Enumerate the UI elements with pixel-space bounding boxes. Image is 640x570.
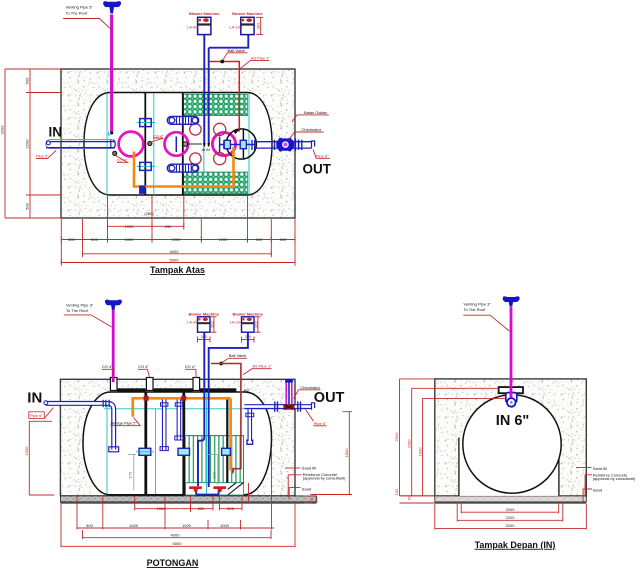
slab [435, 496, 587, 502]
vent pipe [112, 310, 115, 383]
vent pipe [510, 307, 513, 398]
vent cap [103, 1, 121, 13]
media block [185, 436, 244, 483]
chlorinator body [277, 138, 299, 152]
svg-text:1000: 1000 [172, 237, 182, 242]
media block bottom [184, 172, 248, 194]
svg-text:IN 6": IN 6" [496, 413, 529, 429]
concrete pad [61, 69, 295, 218]
svg-text:Tampak Atas: Tampak Atas [150, 265, 205, 275]
baffle fitting divider1 bottom [137, 162, 156, 170]
AS air pipe (red) [210, 62, 240, 132]
svg-text:1000: 1000 [182, 523, 192, 528]
svg-text:Sludge Pipe 2": Sludge Pipe 2" [111, 421, 138, 426]
junction dot chamber2 [183, 142, 188, 147]
cyan section line 3 [206, 392, 208, 495]
svg-text:2500: 2500 [394, 432, 399, 442]
172 dim [217, 455, 219, 485]
svg-text:4000: 4000 [170, 249, 180, 254]
svg-text:AS: AS [244, 388, 250, 393]
left dims [400, 379, 506, 503]
transfer assembly divider2 top [167, 116, 198, 124]
tank body [83, 392, 272, 495]
svg-text:630: 630 [198, 506, 205, 511]
diffuser circles (red) [190, 123, 226, 164]
svg-text:Pipe 6": Pipe 6" [36, 154, 49, 159]
row3 [83, 253, 272, 255]
row2 [61, 239, 295, 241]
svg-text:OUT: OUT [314, 390, 345, 406]
left dims [29, 69, 31, 218]
baffle fitting divider1 top [137, 119, 156, 127]
section bottom dims [61, 448, 295, 548]
extension lines below tank [107, 196, 109, 241]
svg-text:Ball Valve: Ball Valve [228, 48, 246, 53]
svg-text:500: 500 [91, 237, 98, 242]
svg-text:2000: 2000 [506, 507, 516, 512]
svg-text:Blower Machine: Blower Machine [188, 311, 219, 316]
svg-text:LA-80: LA-80 [187, 320, 198, 325]
svg-text:Sand: Sand [302, 486, 311, 491]
svg-text:OUT: OUT [303, 162, 332, 177]
ball valve (section) [219, 362, 223, 366]
svg-text:630: 630 [165, 224, 172, 229]
blower machine 2 (section) [230, 311, 264, 342]
hanging pipes chamber2 [160, 400, 183, 451]
concrete [435, 379, 587, 496]
collar [499, 387, 523, 393]
slab [60, 496, 316, 502]
svg-text:To The Roof: To The Roof [66, 308, 89, 313]
divider wall 2 [182, 93, 184, 196]
svg-text:2200: 2200 [25, 139, 30, 149]
svg-text:(approval by consultant): (approval by consultant) [303, 476, 346, 481]
clarifier circle [226, 129, 256, 159]
svg-text:CO 4": CO 4" [138, 364, 149, 369]
water level [104, 408, 269, 410]
svg-text:3200: 3200 [506, 523, 516, 528]
svg-text:Chlorinator: Chlorinator [302, 127, 322, 132]
sludge pipe wall fitting [140, 186, 145, 193]
row1 [108, 225, 184, 227]
svg-text:LA-100: LA-100 [230, 320, 244, 325]
svg-text:4000: 4000 [171, 533, 181, 538]
1800 right dim [310, 412, 352, 495]
media block top [184, 94, 248, 115]
1900 left dim [29, 421, 54, 495]
blower pipe B elbow [209, 35, 249, 48]
blower machine 1 (section) [187, 311, 220, 342]
svg-text:1000: 1000 [157, 506, 167, 511]
cyan section lines [107, 93, 249, 195]
svg-text:2300: 2300 [406, 439, 411, 449]
svg-text:500: 500 [68, 237, 75, 242]
sludge pipe (orange) [134, 147, 234, 187]
svg-text:175: 175 [128, 471, 133, 478]
outlet drop pipe [246, 407, 254, 445]
svg-text:500: 500 [256, 237, 263, 242]
svg-text:AI AI: AI AI [202, 147, 210, 152]
svg-text:(approval by consultant): (approval by consultant) [593, 476, 636, 481]
air pipes (section) [203, 332, 205, 437]
svg-text:172: 172 [211, 471, 216, 478]
svg-text:Sand: Sand [593, 488, 602, 493]
CO collars [110, 378, 117, 391]
svg-text:LA-100: LA-100 [229, 24, 243, 29]
svg-text:CO 4": CO 4" [153, 133, 164, 138]
cradle [459, 438, 559, 496]
inlet fitting [506, 393, 517, 403]
svg-text:362: 362 [210, 320, 215, 327]
transfer assembly divider2 bottom [167, 164, 198, 172]
manhole circle chamber2 [165, 132, 189, 156]
tank body (stadium) [84, 93, 272, 196]
vent pipe (magenta) [110, 15, 113, 134]
svg-text:Sand fill: Sand fill [302, 466, 316, 471]
svg-text:100: 100 [394, 488, 399, 495]
bottom dims [435, 504, 587, 530]
svg-text:500: 500 [86, 523, 93, 528]
svg-text:Sand fill: Sand fill [593, 466, 607, 471]
cyan section lines [106, 403, 108, 494]
divider fittings [139, 448, 151, 455]
svg-text:IN: IN [27, 390, 42, 407]
svg-text:Blower Machine: Blower Machine [232, 11, 263, 16]
50/100 slab marks [304, 495, 312, 497]
svg-text:Venting Pipe 3": Venting Pipe 3" [66, 5, 94, 10]
svg-text:LA-80: LA-80 [187, 24, 198, 29]
svg-text:5000: 5000 [170, 258, 180, 263]
sludge pipe top fitting [224, 141, 231, 148]
svg-text:3200: 3200 [0, 125, 5, 135]
svg-text:Blower Machine: Blower Machine [189, 11, 220, 16]
Pipe 6 label [29, 412, 45, 419]
svg-text:526: 526 [227, 506, 234, 511]
svg-text:Pipe 6": Pipe 6" [314, 421, 327, 426]
svg-text:Pipe 6": Pipe 6" [30, 413, 43, 418]
svg-text:CO 4": CO 4" [185, 364, 196, 369]
svg-text:To The Roof: To The Roof [464, 307, 487, 312]
IN pipe with elbow [44, 400, 119, 452]
blower machine 1 [187, 11, 220, 35]
ball valve dot [220, 60, 224, 64]
OUT pipe (section) [244, 402, 314, 412]
top view dimensions [5, 69, 295, 266]
svg-text:500: 500 [25, 77, 30, 84]
sludge pipe (orange) [131, 397, 230, 400]
vent cap [503, 296, 520, 306]
svg-text:1900: 1900 [24, 446, 29, 456]
svg-text:500: 500 [280, 237, 287, 242]
bottom slope lines [228, 483, 244, 495]
svg-text:1000: 1000 [129, 523, 139, 528]
cover slabs on top [117, 388, 146, 392]
svg-text:To The Roof: To The Roof [66, 11, 89, 16]
dim labels row2 [68, 237, 287, 242]
CO dot chamber1 right [148, 141, 152, 145]
chlorinator (section) [283, 379, 294, 410]
svg-text:AS Pipe 1": AS Pipe 1" [252, 364, 272, 369]
vent cap [105, 300, 122, 310]
svg-text:1900: 1900 [417, 447, 422, 457]
svg-text:2200: 2200 [506, 515, 516, 520]
svg-text:500: 500 [25, 202, 30, 209]
tank circle [463, 395, 561, 493]
manhole circle chamber1 [119, 132, 144, 157]
svg-text:362: 362 [254, 320, 259, 327]
row4 [61, 262, 295, 264]
svg-text:POTONGAN: POTONGAN [147, 558, 199, 568]
dim labels row1 [125, 224, 173, 229]
blower machine 2 [229, 11, 263, 35]
svg-text:362: 362 [256, 22, 261, 29]
svg-text:1000: 1000 [219, 237, 229, 242]
blower 362 dim [256, 17, 263, 34]
concrete [60, 379, 295, 496]
svg-text:IN: IN [49, 125, 63, 140]
AS pipe red (section) [211, 364, 241, 472]
svg-text:Blower Machine: Blower Machine [232, 311, 263, 316]
svg-text:100: 100 [314, 496, 319, 503]
svg-text:AS Pipe 1": AS Pipe 1" [251, 55, 271, 60]
divider wall 1 [144, 93, 146, 196]
IN pipe [46, 140, 116, 149]
svg-text:Tampak Depan (IN): Tampak Depan (IN) [475, 540, 556, 550]
OUT pipe [252, 140, 315, 150]
manhole circle chamber3 [212, 132, 235, 155]
svg-text:1800: 1800 [344, 448, 349, 458]
svg-text:50: 50 [406, 495, 411, 500]
svg-text:Ball Valve: Ball Valve [229, 353, 247, 358]
175 dim [133, 454, 135, 490]
svg-text:1000: 1000 [125, 224, 135, 229]
outlet tee in chlorine chamber [219, 137, 221, 152]
svg-text:CO 4": CO 4" [102, 364, 113, 369]
vent entry dot [110, 132, 113, 135]
svg-text:5000: 5000 [173, 541, 183, 546]
diffusers [189, 486, 226, 494]
svg-text:1000: 1000 [220, 523, 230, 528]
svg-text:Batas Galian: Batas Galian [304, 110, 327, 115]
CO dot chamber1 left [113, 151, 117, 155]
svg-text:Venting Pipe 3": Venting Pipe 3" [464, 302, 492, 307]
svg-text:1000: 1000 [125, 237, 135, 242]
svg-text:Pipe 6": Pipe 6" [316, 153, 329, 158]
svg-text:(280): (280) [144, 211, 154, 216]
divider walls [144, 392, 147, 495]
svg-text:Venting Pipe 3": Venting Pipe 3" [66, 303, 94, 308]
air pipes into tank [203, 35, 205, 147]
